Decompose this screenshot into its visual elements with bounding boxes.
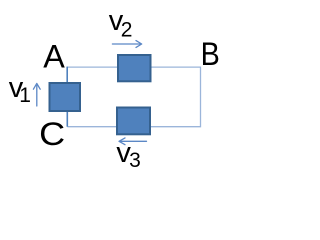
svg-text:A: A bbox=[43, 39, 65, 75]
svg-text:3: 3 bbox=[129, 149, 141, 172]
svg-text:2: 2 bbox=[121, 18, 133, 41]
svg-text:B: B bbox=[201, 36, 220, 72]
svg-text:1: 1 bbox=[19, 84, 31, 107]
svg-text:C: C bbox=[39, 116, 65, 152]
